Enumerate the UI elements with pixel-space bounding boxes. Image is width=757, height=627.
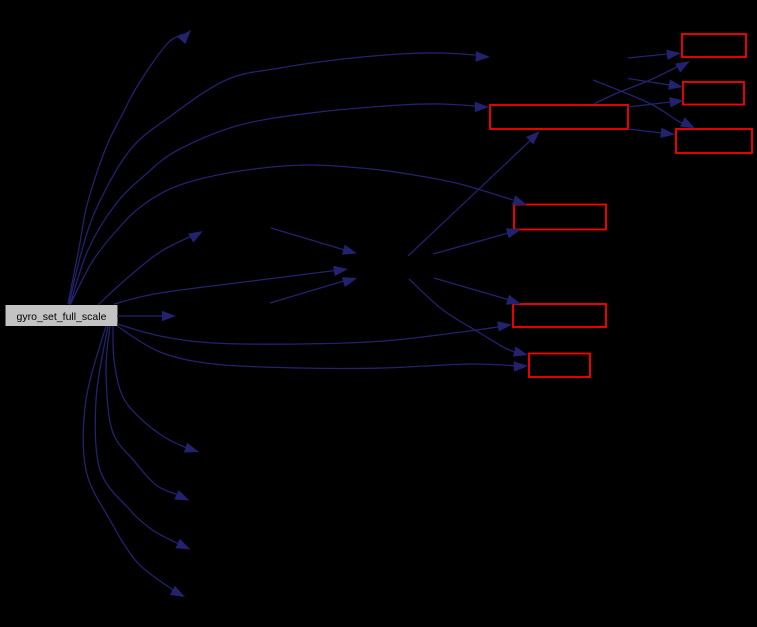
arrowhead to A left (666, 50, 681, 60)
edge E2 root to hidden node N2 (69, 53, 477, 304)
edge S2 root to box B6 left (117, 326, 519, 369)
svg-text:gyro_set_full_scale: gyro_set_full_scale (17, 311, 107, 323)
arrowhead E5 (188, 231, 203, 243)
box B1 (red callee, wide, row y105) (490, 105, 628, 129)
arrowhead hub to B5 top (506, 295, 521, 305)
arrowhead F2 (174, 490, 189, 501)
edge hidden to box C top (593, 80, 687, 124)
box B6 (red, row y353) (529, 354, 590, 378)
edge hub to box B6 top (409, 279, 520, 354)
arrowhead S2 to B6 left (514, 361, 528, 371)
edge F1 root to hidden node bottom1 (113, 326, 187, 448)
box A (red, top right) (682, 34, 746, 57)
arrowhead B1 to C left (660, 128, 675, 138)
edge B1 to box B left lower (628, 102, 675, 108)
edge E5 root to hidden node A2 (98, 235, 194, 305)
arrowhead to C top (680, 117, 695, 128)
edge N2 to box A left (628, 54, 672, 59)
arrowhead B1 to B left lower (669, 97, 684, 107)
edge hidden B2 to hub bottom (270, 280, 347, 303)
node gyro_set_full_scale (root, grey) (6, 305, 118, 326)
arrowhead E7 to hub (333, 266, 348, 276)
arrowhead E2 to N2 (476, 51, 490, 61)
arrowhead F3 (175, 539, 190, 550)
box C (red, right, row y129) (676, 129, 752, 153)
edge E3 root to box B1 (70, 104, 477, 305)
edge hidden A2 to hub top (271, 228, 348, 251)
arrowhead hub to B4 bottom (506, 228, 521, 238)
arrowhead to B left upper (668, 79, 683, 89)
edge S1 root to box B5 left (117, 324, 504, 344)
edge hub to box B4 bottom (433, 232, 512, 254)
edge B1 top to box A bottom (594, 65, 681, 104)
box B (red, right, row y82) (683, 82, 744, 105)
arrowhead F4 (170, 586, 185, 597)
edge F3 root to hidden node bottom3 (95, 326, 179, 544)
edge hub to box B5 top (434, 278, 513, 301)
arrowhead B1 to A bottom (675, 61, 690, 73)
arrowhead E6 (162, 311, 176, 321)
edge F4 root to hidden node bottom4 (83, 326, 174, 591)
arrowhead hub to B6 top (513, 347, 528, 357)
edge hub to box B1 bottom (408, 137, 534, 256)
box B4 (red, middle, row y204) (514, 205, 606, 230)
arrowhead hub to B1 bottom (526, 131, 540, 145)
edge E1 root to hidden node top-left (68, 34, 183, 304)
edge hidden to box B left upper (628, 79, 674, 86)
arrowhead E1 (178, 30, 191, 44)
edge F2 root to hidden node bottom2 (106, 326, 178, 495)
arrowhead E4 to B4 top (512, 195, 527, 205)
edge E6 root to hidden node B2 (117, 315, 167, 317)
edge B1 to box C left (628, 129, 666, 134)
arrowhead E3 to B1 (475, 102, 489, 112)
arrowhead F1 (184, 443, 199, 453)
edge E7 root to hub mid (114, 270, 339, 304)
arrowhead A2 to hub (342, 245, 357, 255)
arrowhead S1 to B5 left (497, 321, 512, 331)
edge E4 root to box B4 top (70, 165, 513, 305)
arrowhead B2 to hub (342, 277, 357, 287)
box B5 (red, row y304) (513, 304, 606, 327)
